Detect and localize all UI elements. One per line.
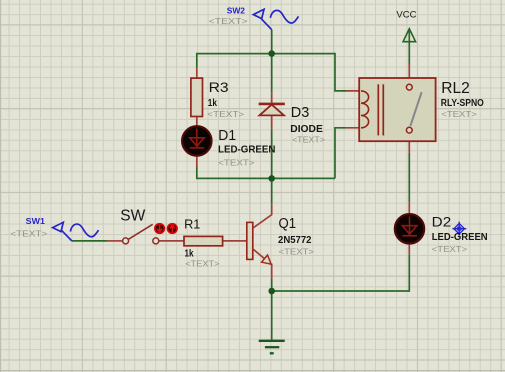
pin relay coil top (347, 90, 367, 92)
svg-text:SW1: SW1 (26, 217, 46, 226)
relay switch lever (410, 92, 421, 126)
relay core (377, 84, 379, 135)
wire relay to D2 (408, 153, 410, 202)
Q1 collector lead (253, 215, 272, 229)
pin D2 top (408, 202, 410, 215)
toggle button down-arrow (154, 223, 165, 234)
VCC power symbol (403, 29, 416, 42)
relay coil (361, 91, 369, 128)
pin Q1 collector (271, 203, 273, 215)
pin D2 bottom (408, 244, 410, 254)
junction node bottom rail / D3 (268, 175, 275, 182)
svg-text:<TEXT>: <TEXT> (218, 158, 254, 168)
source symbol SW1 (53, 222, 99, 241)
svg-text:LED-GREEN: LED-GREEN (218, 144, 276, 155)
Q1 emitter arrow (262, 255, 272, 264)
transistor Q1 (247, 215, 272, 265)
pin R3 top (196, 67, 198, 79)
svg-text:LED-GREEN: LED-GREEN (432, 232, 488, 243)
svg-text:2N5772: 2N5772 (278, 235, 312, 246)
pin Q1 emitter (271, 264, 273, 279)
junction node emitter (268, 288, 275, 295)
pin relay coil bottom (347, 127, 367, 129)
svg-text:SW2: SW2 (227, 6, 246, 16)
wire D2 bottom (408, 254, 410, 292)
Q1 base bar (247, 222, 253, 259)
svg-text:DIODE: DIODE (290, 124, 323, 135)
svg-text:SW: SW (120, 207, 145, 224)
switch lever (129, 224, 153, 239)
svg-text:D2: D2 (432, 214, 452, 230)
relay switch contact bottom (406, 127, 412, 133)
Q1 emitter lead (253, 249, 272, 265)
LED D1 (182, 126, 211, 155)
pin R3 bottom to D1 (196, 116, 198, 127)
wire D3 bottom (271, 129, 273, 179)
switch pole circle right (153, 238, 159, 244)
switch pole circle left (123, 238, 129, 244)
wire right column upper (335, 53, 347, 91)
wire VCC (408, 29, 410, 64)
relay RL2 (359, 78, 435, 141)
svg-text:<TEXT>: <TEXT> (432, 244, 468, 254)
svg-text:<TEXT>: <TEXT> (441, 109, 477, 119)
wire D1 bottom (196, 167, 198, 179)
wire top rail (197, 53, 335, 55)
svg-text:RLY-SPNO: RLY-SPNO (441, 98, 484, 109)
wire bottom rail (197, 177, 335, 179)
svg-text:D1: D1 (218, 128, 236, 144)
wire R3 top (196, 53, 198, 67)
svg-text:<TEXT>: <TEXT> (279, 246, 315, 256)
svg-text:R3: R3 (209, 80, 229, 95)
ground symbol (259, 341, 285, 354)
svg-text:Q1: Q1 (279, 216, 297, 232)
wire emitter down (271, 279, 273, 291)
relay body (359, 78, 435, 141)
pin D3 bottom (271, 115, 273, 128)
wire SW2 drop (271, 30, 273, 54)
wire D3 top (271, 54, 273, 93)
svg-text:1k: 1k (208, 98, 218, 109)
svg-text:R1: R1 (184, 217, 200, 232)
wire SW1 output (72, 240, 108, 242)
pin relay switch top / VCC (408, 64, 410, 85)
pin D1 bottom (196, 156, 198, 168)
junction node top rail / SW2 (268, 50, 275, 57)
svg-text:D3: D3 (291, 105, 310, 121)
wire emitter rail (272, 290, 410, 292)
svg-text:<TEXT>: <TEXT> (207, 109, 244, 119)
LED D2 (395, 214, 424, 243)
selection marker D2 (452, 222, 466, 236)
pin R1 to Q1 base (223, 240, 247, 242)
resistor R1 body (184, 236, 223, 245)
wire ground drop (271, 291, 273, 341)
svg-text:<TEXT>: <TEXT> (209, 16, 248, 26)
svg-text:<TEXT>: <TEXT> (292, 135, 325, 145)
wire coil bottom to right column lower (335, 128, 347, 179)
relay switch contact top (406, 84, 412, 90)
pin switch SW left (107, 240, 122, 242)
pin relay switch bottom (408, 133, 410, 153)
wire collector branch (271, 178, 273, 203)
svg-text:RL2: RL2 (441, 80, 470, 97)
svg-text:<TEXT>: <TEXT> (10, 228, 47, 238)
diode D3 (259, 104, 285, 116)
source symbol SW2 (253, 9, 298, 29)
switch SW (123, 224, 159, 244)
resistor R3 body (191, 78, 203, 116)
svg-text:VCC: VCC (396, 9, 416, 20)
toggle button up-arrow (167, 223, 178, 234)
pin switch SW to R1 (159, 240, 184, 242)
svg-text:<TEXT>: <TEXT> (185, 258, 220, 268)
pin D3 top (271, 92, 273, 104)
